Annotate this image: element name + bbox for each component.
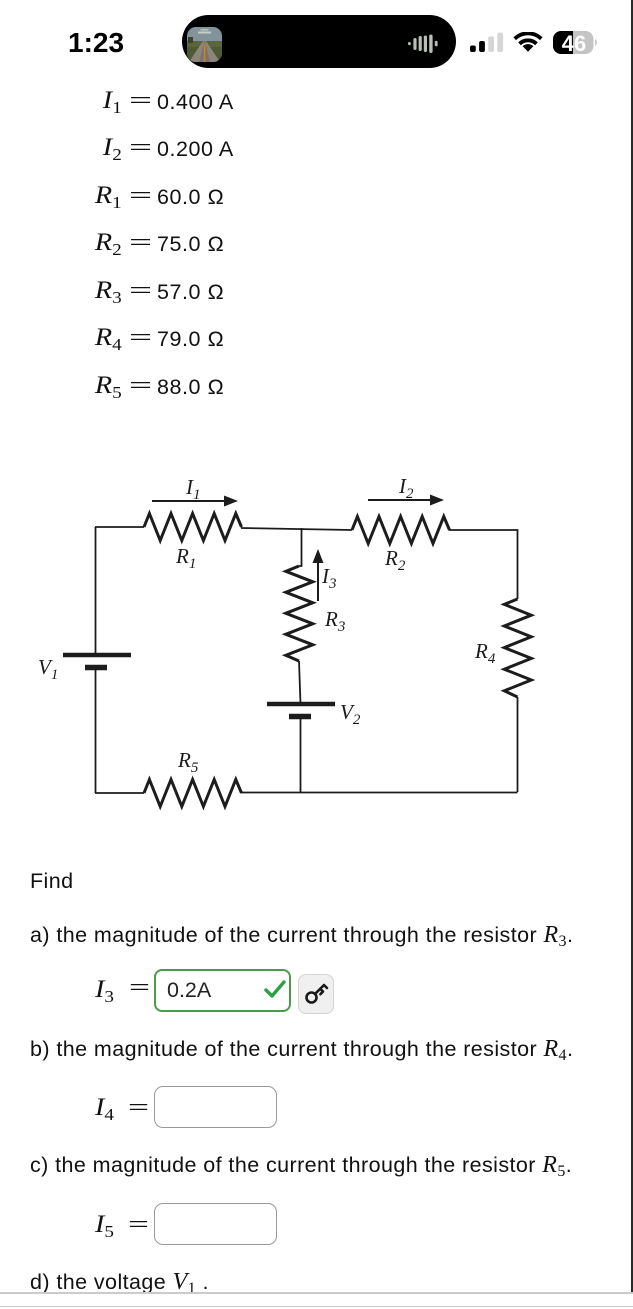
Find xyxy=(30,869,74,894)
wire left vertical top xyxy=(95,527,97,655)
battery xyxy=(553,31,603,55)
answer row c xyxy=(0,1203,1,1249)
answer row a xyxy=(0,969,2,1015)
wire R3 to V2 xyxy=(299,661,301,704)
svg-text:R4: R4 xyxy=(474,639,496,667)
wire R1 to R2 xyxy=(241,528,352,530)
wire R5 to bottom right xyxy=(241,792,518,794)
a) xyxy=(30,922,573,949)
resistor R2 xyxy=(352,517,450,544)
d) xyxy=(30,1269,209,1296)
svg-text:I3: I3 xyxy=(321,564,337,592)
b) xyxy=(30,1036,573,1063)
input box c xyxy=(154,1203,277,1245)
input box b xyxy=(154,1086,277,1128)
album art xyxy=(187,27,222,62)
resistor R1 xyxy=(144,514,242,541)
dynamic island xyxy=(182,15,456,68)
wire right vertical bottom xyxy=(517,697,519,792)
svg-text:I1: I1 xyxy=(185,475,201,503)
key icon xyxy=(304,981,329,1006)
resistor R5 xyxy=(144,780,242,807)
resistor R4 xyxy=(504,599,531,697)
status bar time xyxy=(68,27,124,59)
key button xyxy=(298,974,334,1014)
svg-text:R5: R5 xyxy=(177,748,199,776)
answer row b xyxy=(0,1086,1,1132)
svg-text:R3: R3 xyxy=(324,607,345,635)
green check xyxy=(264,979,286,999)
battery V2 xyxy=(267,704,335,717)
wire middle node down xyxy=(299,528,302,566)
waveform xyxy=(408,34,440,53)
wifi icon xyxy=(513,32,543,52)
resistor R3 xyxy=(286,566,313,661)
circuit diagram xyxy=(0,440,633,840)
wire V2 to bottom xyxy=(300,716,302,793)
bottom separator xyxy=(0,1292,633,1294)
current arrow I2 xyxy=(368,495,444,506)
green answer box xyxy=(154,969,291,1012)
svg-text:R2: R2 xyxy=(384,546,406,574)
current arrow I3 xyxy=(313,549,324,601)
wire left vertical bottom xyxy=(95,667,97,793)
svg-text:I2: I2 xyxy=(398,474,414,502)
battery V1 xyxy=(63,655,131,668)
svg-text:V2: V2 xyxy=(340,700,361,728)
current arrow I1 xyxy=(152,496,238,507)
wire bottom left to R5 xyxy=(95,792,144,794)
signal bars xyxy=(470,32,504,52)
c) xyxy=(30,1152,572,1179)
svg-text:46: 46 xyxy=(562,31,586,55)
svg-text:V1: V1 xyxy=(38,655,58,683)
wire top-left to R1 xyxy=(95,526,144,528)
wire R2 to top-right corner xyxy=(449,530,518,599)
right edge line xyxy=(631,0,633,1292)
svg-text:R1: R1 xyxy=(175,544,196,572)
